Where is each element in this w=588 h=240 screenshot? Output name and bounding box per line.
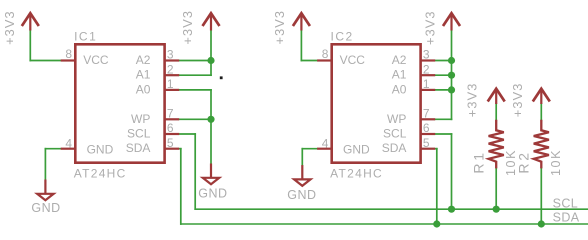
- svg-text:+3V3: +3V3: [423, 10, 438, 45]
- svg-text:SDA: SDA: [553, 211, 580, 225]
- svg-text:WP: WP: [131, 112, 150, 126]
- svg-text:A1: A1: [392, 68, 407, 82]
- svg-text:7: 7: [167, 106, 174, 120]
- svg-text:5: 5: [423, 136, 430, 150]
- svg-text:AT24HC: AT24HC: [74, 167, 127, 181]
- svg-text:+3V3: +3V3: [180, 10, 195, 45]
- svg-text:8: 8: [65, 47, 72, 61]
- svg-text:3: 3: [167, 48, 174, 62]
- svg-text:WP: WP: [387, 112, 406, 126]
- svg-text:SCL: SCL: [127, 127, 151, 141]
- svg-text:A0: A0: [136, 82, 151, 96]
- svg-text:+3V3: +3V3: [464, 83, 479, 118]
- svg-text:AT24HC: AT24HC: [330, 167, 383, 181]
- svg-text:GND: GND: [343, 142, 370, 156]
- svg-text:VCC: VCC: [340, 53, 366, 67]
- svg-text:GND: GND: [87, 142, 114, 156]
- svg-text:4: 4: [65, 137, 72, 151]
- svg-text:VCC: VCC: [83, 53, 109, 67]
- svg-text:SDA: SDA: [382, 141, 407, 155]
- svg-text:R2: R2: [515, 150, 531, 174]
- svg-text:A0: A0: [392, 82, 407, 96]
- svg-text:+3V3: +3V3: [510, 83, 525, 118]
- svg-text:5: 5: [167, 136, 174, 150]
- svg-text:+3V3: +3V3: [272, 10, 287, 45]
- svg-text:2: 2: [423, 62, 430, 76]
- svg-text:A2: A2: [136, 53, 151, 67]
- svg-text:SDA: SDA: [126, 141, 151, 155]
- svg-text:8: 8: [322, 47, 329, 61]
- svg-text:3: 3: [423, 48, 430, 62]
- svg-text:+3V3: +3V3: [2, 10, 17, 45]
- svg-text:A2: A2: [392, 53, 407, 67]
- svg-text:SCL: SCL: [383, 127, 407, 141]
- svg-text:IC2: IC2: [331, 29, 354, 43]
- svg-text:R1: R1: [470, 150, 486, 174]
- svg-text:GND: GND: [287, 188, 316, 202]
- svg-text:10K: 10K: [549, 149, 563, 176]
- svg-text:GND: GND: [31, 201, 60, 215]
- svg-text:GND: GND: [198, 187, 227, 201]
- svg-text:A1: A1: [136, 68, 151, 82]
- svg-text:SCL: SCL: [553, 197, 579, 211]
- svg-text:6: 6: [423, 121, 430, 135]
- svg-text:6: 6: [167, 121, 174, 135]
- svg-text:IC1: IC1: [74, 29, 97, 43]
- svg-text:7: 7: [423, 106, 430, 120]
- svg-text:1: 1: [423, 77, 430, 91]
- svg-text:1: 1: [167, 77, 174, 91]
- svg-text:4: 4: [322, 137, 329, 151]
- svg-text:2: 2: [167, 62, 174, 76]
